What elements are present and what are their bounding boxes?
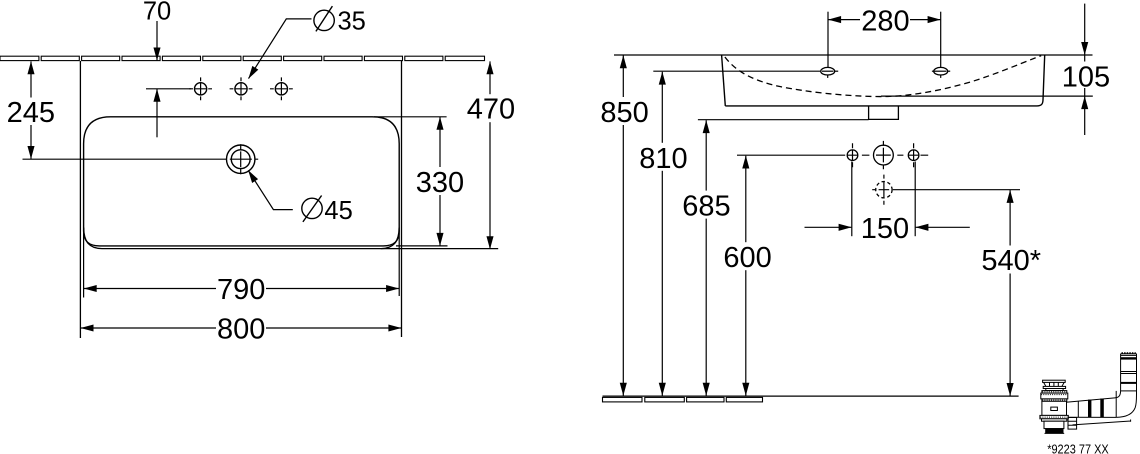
svg-text:790: 790 — [217, 274, 265, 306]
vertical pipe lower band — [1121, 382, 1136, 384]
elbow outer curve — [1116, 354, 1136, 418]
valve upper body — [1041, 393, 1068, 399]
drain rod — [1073, 420, 1131, 425]
svg-text:70: 70 — [143, 0, 171, 25]
svg-text:105: 105 — [1062, 62, 1110, 94]
drain outlet crosshair — [872, 175, 889, 205]
tap hole center (side view) — [874, 141, 894, 169]
svg-text:600: 600 — [723, 242, 771, 274]
basin front outer edge right corner — [381, 228, 399, 249]
label D35 diameter symbol — [314, 10, 334, 30]
valve main body — [1042, 401, 1067, 415]
dim 280 right segment with arrow — [910, 19, 940, 21]
svg-text:800: 800 — [217, 313, 265, 345]
bowl left edge extension to 790 dimension — [83, 230, 85, 298]
drain hole inner circle — [231, 150, 250, 169]
valve flange — [1043, 386, 1065, 388]
svg-text:810: 810 — [639, 143, 687, 175]
drain hole outer circle — [227, 145, 255, 173]
basin rear edge (left, side view) — [722, 55, 726, 106]
leader line for hole diameter label — [249, 19, 312, 79]
elbow socket joint vertical — [1115, 391, 1117, 418]
bowl interior profile (dashed) — [725, 56, 1041, 97]
vertical pipe top cap — [1121, 354, 1137, 356]
valve black foot — [1046, 429, 1063, 433]
dim 280 left extension line — [827, 12, 829, 68]
valve lower ring — [1042, 419, 1067, 421]
dim 850 line — [622, 55, 624, 395]
dim 685 reference line (to drain boss) — [698, 119, 869, 121]
drain centerline vertical — [240, 144, 242, 174]
elbow socket joint top — [1121, 390, 1137, 392]
svg-text:330: 330 — [416, 167, 464, 199]
valve body detail — [1051, 407, 1058, 410]
dim 800 line — [81, 327, 402, 329]
basin top line (side view) + 850/105 reference — [614, 54, 1093, 56]
outlet nut — [1068, 418, 1077, 430]
svg-text:470: 470 — [467, 94, 515, 126]
svg-text:45: 45 — [324, 197, 352, 225]
bowl right edge extension to 790 dimension — [398, 230, 400, 296]
dim 600 line — [745, 156, 747, 396]
pipe bottom edge — [1066, 416, 1116, 418]
basin front outer edge (overhang) + 470 reference line — [84, 228, 499, 249]
outer ceramic left edge / 800 extension line — [79, 61, 81, 338]
dim 245 line — [30, 61, 32, 158]
pipe top edge into elbow inner — [1066, 354, 1121, 403]
svg-text:540*: 540* — [981, 245, 1041, 277]
tap hole small right (side view) — [908, 143, 919, 167]
dim 685 line — [705, 120, 707, 395]
dim 70 lower line with up arrow — [156, 89, 158, 137]
dim 150 right segment with arrow — [916, 226, 970, 228]
fixing hole left (side view) — [821, 67, 839, 78]
dim 105 stub above label — [1084, 55, 1086, 62]
faucet hole middle — [230, 77, 253, 100]
vertical pipe ring lines — [1121, 372, 1137, 374]
dim 470 line — [489, 61, 491, 249]
leader line for drain diameter label — [248, 170, 293, 209]
dim 280 right extension line — [940, 12, 942, 68]
valve knurled band — [1042, 391, 1067, 394]
svg-text:685: 685 — [682, 191, 730, 223]
svg-text:280: 280 — [861, 5, 909, 37]
basin bottom and front edge (side view) — [725, 55, 1044, 106]
dim 150 left segment with arrow — [805, 226, 852, 228]
svg-text:850: 850 — [600, 97, 648, 129]
floor line — [603, 395, 1019, 397]
valve knurled ring — [1042, 399, 1067, 401]
outer ceramic right edge / 800 extension line — [401, 61, 403, 337]
dim 810 line — [661, 72, 663, 396]
dim 790 line — [84, 288, 399, 290]
fixing hole right (side view) — [932, 67, 950, 78]
vertical pipe dark band — [1121, 357, 1136, 359]
tap hole small left (side view) — [847, 143, 858, 167]
valve cap — [1043, 380, 1066, 382]
drain outlet dashed circle (side view) — [876, 182, 892, 198]
dim 540 line — [1009, 190, 1011, 396]
svg-text:150: 150 — [861, 213, 909, 245]
valve lower flange — [1040, 415, 1068, 418]
dim 330 line — [439, 117, 441, 246]
dim 810 reference line (to fixing holes) — [653, 70, 820, 72]
floor strip (segmented) — [603, 397, 763, 402]
trap icon group — [1040, 353, 1137, 433]
dim 600 reference line (to tap holes) — [737, 154, 928, 156]
dim 70 reference tick at faucet hole centerline — [146, 88, 191, 90]
pipe joint line near valve — [1077, 401, 1079, 417]
valve tailpiece — [1044, 421, 1064, 428]
bowl bottom extension to 330 dimension — [396, 245, 448, 247]
dim 150 right extension line — [914, 162, 916, 237]
105 bottom reference line (bowl depth) — [881, 95, 1093, 97]
dim 105 stub below label — [1084, 88, 1086, 96]
drain outlet reference line to 540 — [893, 189, 1020, 191]
dim 105 upper line with down arrow — [1084, 4, 1086, 55]
basin bowl outline (plan view rounded rectangle) — [84, 117, 400, 246]
bowl top extension to 330 dimension — [374, 116, 447, 118]
svg-text:245: 245 — [7, 97, 55, 129]
wall strip (segmented wall line, top of plan view) — [0, 56, 485, 60]
pipe dark ring bars — [1088, 400, 1091, 418]
dim 70 upper line with down arrow — [156, 21, 158, 60]
label D45 diameter symbol — [302, 198, 322, 218]
dim 280 left segment with arrow — [828, 19, 860, 21]
dim 105 lower line with up arrow — [1084, 96, 1086, 135]
valve neck — [1046, 389, 1063, 391]
svg-text:35: 35 — [338, 7, 366, 35]
valve base line — [1045, 432, 1065, 434]
faucet hole left — [189, 77, 212, 100]
faucet hole right — [270, 77, 293, 100]
drain centerline horizontal (245 reference through drain) — [23, 158, 259, 160]
drain boss under basin — [869, 106, 899, 120]
dim 150 left extension line — [851, 162, 853, 237]
svg-text:*9223 77 XX: *9223 77 XX — [1047, 441, 1109, 454]
